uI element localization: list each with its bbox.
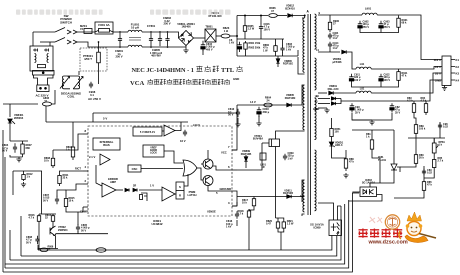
IC wire buf out [175,122,181,131]
resistor R930 [328,20,331,32]
svg-text:L91: L91 [360,62,365,66]
IC pin 3 stub [232,205,237,207]
svg-text:VD84012N5064: VD84012N5064 [14,113,24,120]
wire PT8001 bottom to coil cap [98,66,100,84]
wire C807 to pin1 [57,190,66,197]
IC wire or to q1 [201,163,203,165]
resistor R807 [21,141,24,157]
capacitor C812 [236,109,240,118]
wire bridge plus out [194,37,206,39]
relay T8801 box [205,29,216,42]
IC osc box [128,165,141,172]
connector XS901 body [442,56,455,86]
wire feedback winding top [302,180,305,202]
svg-text:VREFGOODLOCK: VREFGOODLOCK [150,147,158,155]
capacitor C807 [55,196,59,205]
svg-text:GND: GND [435,79,441,83]
junction B+ [236,35,238,37]
wire top rail [237,15,268,17]
wire sec gnd verticals [352,113,392,120]
wire R818 bottom [248,219,250,250]
wire bus 6 [3,193,359,272]
svg-text:COMP: COMP [80,210,88,214]
resistor R845 [433,157,436,170]
capacitor C906 [350,103,354,112]
wire VT802 down [55,236,57,249]
svg-text:C803330 μ: C803330 μ [263,107,270,114]
wire pin3 to rail [236,197,238,207]
capacitor C905 [379,74,383,84]
TL431 IC804 [391,158,400,176]
resistor R902 [397,69,400,83]
wire sense rail [237,196,305,198]
junction startup [244,15,246,17]
wire collector rail [56,233,109,235]
resistor R851b [330,126,333,139]
wire pin15 gnd stub [318,107,327,109]
faint watermark row 1 [16,10,231,15]
svg-text:K4: K4 [456,79,460,83]
switch S1 pole 2 [55,38,77,45]
wire emitter rail [38,248,59,250]
wire PT8001 top [98,42,100,49]
svg-text:PWMLATCH: PWMLATCH [187,190,196,197]
watermark red text [359,229,408,246]
svg-text:VD812BZX410: VD812BZX410 [285,4,295,11]
resistor R816 [37,214,40,223]
wire opto802 left pin [352,191,360,193]
ground primary [183,48,188,53]
wire R819 drop [72,122,74,144]
IC801 dashed box [88,126,232,216]
svg-text:1 V: 1 V [150,184,154,188]
switch S1 pole 1 [55,28,77,35]
wire sec 12V branch upper [318,98,330,100]
wire R846 top [415,138,417,152]
wire sec gnd rail 2 [352,83,399,87]
capacitor C907 [438,123,442,130]
IC pin 8 stub [83,133,88,135]
choke FL801 winding b [128,45,142,47]
svg-text:VD8D1HZD-3: VD8D1HZD-3 [335,142,344,148]
wire R844 bottom [394,193,424,198]
choke FL801 winding a [128,30,142,32]
wire C816 riser [260,16,262,25]
resistor R812 [22,173,25,181]
capacitor C805 [76,224,80,232]
wire bus left vertical a [37,245,39,250]
bridge rectifier VD801-VD804 [179,31,194,46]
title line 2 [130,79,230,87]
wire C811 bottom [236,220,238,226]
ground C812 [235,122,240,127]
IC wire q1 collector [207,150,209,159]
svg-text:11: 11 [316,48,319,52]
svg-text:GND: GND [313,107,319,111]
junction C816 [260,15,262,17]
svg-text:www.dzsc.com: www.dzsc.com [368,240,408,246]
wire B+ rail y39 [237,38,284,40]
resistor R821 [282,220,285,230]
optocoupler IC803 box [329,220,342,236]
AC plug [33,71,55,92]
ground R842 [343,173,348,178]
capacitor C802 [280,45,284,53]
ground pin15 [324,108,329,113]
wire sense bottom [232,202,237,206]
wire R820 R821 bottom [278,230,284,232]
wire R816 to bus [38,223,40,250]
posistor MZ801 [84,29,92,34]
resistor R860 [274,44,277,53]
svg-text:R/CT: R/CT [75,168,81,171]
transformer T801 core [308,14,311,215]
wire degauss sense rail [3,103,38,105]
wire opto803 top left [318,203,334,220]
IC wire comp to sr [175,193,176,195]
ferrite bead FB1 [96,248,106,252]
wire c908 chain [423,166,425,179]
diode VD811 [287,195,291,199]
wire relay to R823 [216,35,221,37]
wire tl431 anode down [370,176,394,187]
wire bus left vertical b [20,216,22,256]
wire tl431 cathode up [393,130,395,158]
IC wire q out [213,166,232,170]
IC small fet [140,193,148,201]
resistor R804 [264,103,272,107]
svg-text:≥14 V: ≥14 V [193,123,200,127]
wire R860 top [275,39,277,44]
wire c905 drop [380,84,382,87]
node A dot [304,15,306,17]
resistor R811 [58,173,61,186]
svg-text:TTL: TTL [221,67,235,74]
wire zener column top [331,118,333,126]
wire C816 bottom [260,31,262,39]
wire R842 top [345,150,347,156]
capacitor C908 [422,169,426,176]
wire sec gnd rail 1 [360,30,399,33]
junction dots 2 [98,31,169,48]
svg-text:C912100 μ100 V: C912100 μ100 V [384,74,391,82]
degaussing coil [60,76,83,89]
svg-text:C902100 μ250 V: C902100 μ250 V [363,21,370,29]
wire snubber bottom [237,55,298,57]
svg-text:16 V: 16 V [435,65,441,69]
IC pin 7 stub [232,149,237,151]
IC wire sr to or [184,174,188,186]
svg-text:GND: GND [233,77,239,81]
wire pot top [433,138,435,143]
capacitor C806 main filter [201,43,205,52]
wire primary section join [298,57,305,74]
zener VD851 [329,142,334,147]
transformer secondary winding 2 [315,58,317,90]
wire aux rail [237,104,302,106]
svg-text:2R: 2R [133,185,136,188]
capacitor C8802 [165,33,169,46]
IC pin 6 stub [232,169,237,171]
IC 5V REF box [133,127,162,136]
resistor R851 [42,102,51,106]
resistor R815 [64,196,67,209]
wire primary lower top [302,85,305,105]
capacitor C8801 [118,33,122,46]
ground C804 R807 [16,157,21,162]
wire VD812 to node A [293,16,305,19]
capacitor C815 [237,42,241,52]
watermark seal [369,215,400,229]
svg-text:28 V: 28 V [435,72,441,76]
svg-text:VD811RGP10B: VD811RGP10B [283,190,293,196]
wire sec 12V branch lower [318,103,330,105]
svg-text:CY801: CY801 [147,24,156,28]
wire sec 16V rail a [318,51,340,53]
diode VD809 [244,157,248,161]
IC pin 4 stub [83,170,88,172]
wire base drive from IC [237,143,262,170]
wire C802 top [282,39,284,46]
resistor R818 [247,209,250,219]
svg-text:L901: L901 [365,7,372,11]
wire left vertical neutral [49,42,51,46]
wire emitter to sense res [275,148,277,218]
capacitor C803 [257,107,261,117]
resistor R901 [397,16,400,31]
IC pin 1 stub [83,206,88,208]
resistor R846 [414,152,417,166]
IC wire osc to or [141,168,183,170]
diode VD841b [331,102,335,105]
wire C804 top rail [10,140,28,142]
ground connector [442,86,447,91]
wire L902 to connector [371,67,442,70]
wire bus 2 [21,236,337,257]
wire R851 right [52,90,56,104]
wire bus left vertical e [2,130,4,272]
wire left vertical live [32,32,34,46]
svg-text:AC 250 V: AC 250 V [88,97,101,101]
wire R802 bottom [245,51,247,56]
wire bus left vertical f [4,264,6,268]
wire C803 bottom [258,116,260,121]
svg-text:10: 10 [300,194,304,198]
wire long vertical x41 [41,171,43,214]
capacitor C911 [328,33,332,40]
wire C806 bottom [202,49,204,55]
wire VD809 leads [245,155,247,168]
wire bus 4 [5,204,345,264]
wire bus 1 [38,236,332,251]
wire primary lower bottom [302,130,305,132]
wire R812 leads [23,171,25,173]
resistor R842 [344,156,347,171]
capacitor C811 sense [235,211,239,219]
diode VD821 [342,50,346,54]
wire coil to plug area [78,71,80,75]
diode VD805 [287,103,291,107]
resistor R841 [370,137,373,152]
wire gnd rail stub [352,119,372,121]
wire fb to opto [372,152,380,183]
ground C803 [256,121,261,126]
IC vref good logic box [143,145,164,157]
wire C812 bottom [237,118,239,122]
wire bus 5 [5,200,349,268]
wire sec 28V rail b [334,92,357,94]
IC pin 5 stub [232,191,237,197]
inductor L901 [362,13,377,15]
wire rail y171 [13,170,42,172]
wire R820 R821 top [276,218,284,220]
IC wire q2 emitter [208,186,232,192]
IC ref buffer amp [164,125,175,136]
optocoupler IC802 box [360,187,377,197]
wire rail y214 [39,213,56,215]
wire snubber to transformer [297,50,299,56]
wire snub bottom [329,48,331,52]
resistor R817 [252,197,255,209]
IC wire ref to rail [162,130,164,132]
capacitor C808 degauss [89,82,93,89]
svg-text:14 V: 14 V [250,100,256,104]
svg-text:K1: K1 [456,58,460,62]
wire bus left vertical c [9,230,11,260]
wire sec 12V branch upper b [336,98,341,100]
svg-text:5 V REF5.1V: 5 V REF5.1V [140,130,155,134]
wire choke out live [142,32,179,38]
wire rail 5V [46,121,188,123]
svg-text:2.1 V: 2.1 V [89,155,96,159]
wire C805 bottom [77,231,79,234]
svg-text:C911330 μ100 V: C911330 μ100 V [354,74,361,82]
wire R815 to pin2 [66,184,83,196]
wire opto802 right pin [349,195,382,202]
svg-text:VCA: VCA [130,80,145,87]
IC SR latch box [176,182,184,199]
wire C907 top [439,122,441,138]
capacitor C809 [283,154,287,161]
resistor R844 [422,179,425,193]
wire comp wire [66,207,83,212]
resistor R848 [414,122,417,136]
resistor R820 [276,220,279,230]
resistor R814 [51,214,54,223]
svg-text:U2NSE: U2NSE [207,210,216,214]
capacitor C816 [259,24,263,32]
IC wire erramp to diode [116,189,123,191]
wire sec 12V branch join [336,99,341,104]
capacitor C904 [349,74,353,84]
wire R848 bottom [415,136,417,138]
fuse F801 body [95,22,113,34]
choke FL801 core [129,38,141,41]
IC diode D2 [133,188,137,191]
transformer secondary winding 4 [315,150,317,211]
svg-text:VCC: VCC [221,151,227,155]
svg-text:R801 150k: R801 150k [249,42,261,45]
posistor PT8001 dashed box [80,48,107,71]
transformer secondary winding 1 [314,14,316,49]
wire VD806 leads [277,56,279,67]
wire C805 top [77,212,79,225]
wire rail y171 drop left [12,171,14,195]
capacitor C912 [328,42,332,49]
wire R817 bottom [249,208,254,210]
svg-text:GROUND: GROUND [220,187,232,191]
svg-text:110 V: 110 V [434,58,441,62]
svg-text:5 V: 5 V [103,117,107,121]
wire R808 top [52,150,54,156]
svg-text:R: R [179,194,181,198]
transistor VT802 [50,226,56,236]
EMI line filter block [30,46,53,71]
IC totem transistor Q2 [203,176,213,186]
capacitor C808b [35,236,39,245]
wire VT801 collector [276,131,303,139]
wire sec 110V rail [318,14,362,16]
wire live rail to switch [33,31,55,33]
wire oval to 5V rail [45,106,47,122]
diode VD812 [288,14,292,18]
wire bridge bottom to ground [185,46,187,49]
wire fb rail 137 [408,137,445,139]
svg-text:VT801BUV48A: VT801BUV48A [253,134,263,141]
wire R826 to VD812 [277,15,287,17]
resistor R809 1R box [260,153,266,160]
wire fuse to choke [113,31,128,33]
IC pwm comparator [162,187,175,201]
svg-text:FL80110 μH: FL80110 μH [131,23,140,30]
wire L903 to connector [371,73,442,93]
wire zener leads [331,139,333,142]
IC 2.1V amp [100,154,110,165]
wire VT802 base [50,223,53,231]
transformer primary winding lower [303,85,305,130]
resistor R823 [221,34,230,38]
svg-text:F801 3A: F801 3A [98,23,110,27]
svg-text:NEC JC-14D4HMN - 1: NEC JC-14D4HMN - 1 [132,67,194,74]
transformer secondary winding 3 [315,98,317,140]
wire opto803 top right [338,206,342,220]
wire zener bottom [332,146,347,158]
IC wire vgl to or [164,151,183,163]
IC pin 2 stub [83,183,88,185]
watermark mascot [399,212,436,243]
title line 1 [132,66,243,74]
svg-text:L81: L81 [360,87,365,91]
resistor R826 [269,14,278,18]
wire R860 bottom [275,53,277,56]
wire sec 12V rail b [341,80,442,101]
capacitor C804 [13,143,17,153]
transformer primary winding upper [303,18,305,72]
svg-text:16 V: 16 V [180,139,186,143]
capacitor CY802 [158,33,162,46]
posistor PT8001 element [97,49,101,66]
wire sense res to bus [280,232,282,250]
inductor L903 [356,91,371,93]
resistor R833 [412,101,415,115]
wire R820 top lead [277,218,279,220]
svg-text:T8801: T8801 [205,25,213,29]
wire neutral rail to switch [40,41,55,43]
wire R841 top [371,130,373,137]
transformer feedback winding [303,180,305,212]
ground R812 [21,182,26,187]
potentiometer RP801 [432,138,438,157]
